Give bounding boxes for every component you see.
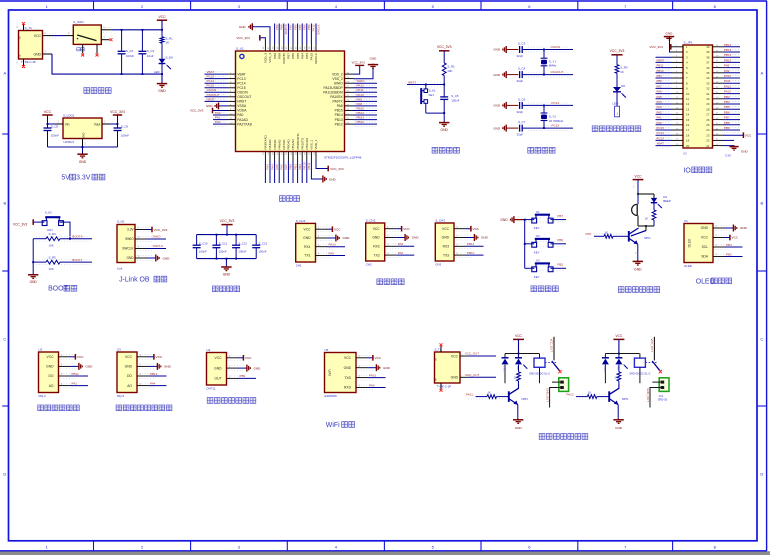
svg-text:GND_OUT: GND_OUT bbox=[646, 388, 650, 402]
GND power port at U3 MQ-5 pin 2 bbox=[149, 363, 172, 370]
LED D6 run indicator bbox=[613, 84, 626, 106]
svg-text:VBAT: VBAT bbox=[657, 142, 665, 146]
svg-text:AO: AO bbox=[49, 384, 54, 388]
GND power port at U1 VSSA pin bbox=[206, 102, 228, 109]
capacitor S_C3 10uF bbox=[138, 30, 154, 74]
svg-text:PB4: PB4 bbox=[300, 53, 304, 59]
svg-text:17: 17 bbox=[686, 128, 690, 132]
terminal pin 2 wire to GND_OUT bbox=[646, 388, 661, 408]
U5 ESP8266 pin stubs bbox=[356, 355, 374, 390]
svg-text:PA11USBDM: PA11USBDM bbox=[323, 91, 343, 95]
svg-text:VSSA: VSSA bbox=[237, 104, 247, 108]
svg-text:GND: GND bbox=[30, 280, 38, 284]
svg-text:GND: GND bbox=[329, 177, 337, 181]
crystal S_Y2 32.768KHz bbox=[541, 105, 564, 128]
svg-text:PC15: PC15 bbox=[552, 124, 560, 128]
svg-text:S_C7: S_C7 bbox=[518, 120, 526, 124]
svg-text:GND: GND bbox=[493, 104, 501, 108]
pin header S_JP1 IO expansion bbox=[683, 41, 713, 156]
svg-text:PA5AD: PA5AD bbox=[273, 139, 277, 150]
U1 right net label wires bbox=[354, 79, 378, 126]
flyback diode 1N4007 bbox=[602, 354, 609, 384]
net label PB4 wire at OLED pin 3 bbox=[725, 243, 743, 247]
svg-text:PA8: PA8 bbox=[337, 104, 343, 108]
section label OLED display bbox=[696, 278, 732, 285]
section label reset circuit bbox=[432, 147, 459, 153]
svg-text:VCC_OUT: VCC_OUT bbox=[650, 339, 654, 353]
svg-text:S_SW1: S_SW1 bbox=[73, 20, 84, 24]
section label relay control circuit bbox=[539, 434, 588, 440]
svg-text:GND: GND bbox=[223, 272, 231, 276]
svg-text:PA5: PA5 bbox=[586, 232, 592, 236]
svg-text:PA0: PA0 bbox=[237, 113, 243, 117]
net label PA5 with base resistor 1K bbox=[586, 230, 629, 238]
section label key circuit bbox=[531, 286, 558, 292]
VCC_3V3 power port of reset circuit bbox=[437, 45, 452, 63]
svg-text:S_R4: S_R4 bbox=[49, 232, 57, 236]
indicator LED of relay bbox=[615, 354, 627, 371]
svg-text:NRST: NRST bbox=[657, 58, 665, 62]
net label PB11 wire at CH3 pin 3 bbox=[466, 242, 484, 246]
svg-text:PA2: PA2 bbox=[657, 110, 663, 114]
svg-text:VCC: VCC bbox=[34, 34, 42, 38]
terminal pin 1 wire bbox=[652, 381, 660, 383]
svg-text:GND: GND bbox=[493, 73, 501, 77]
svg-text:PB6: PB6 bbox=[293, 24, 297, 30]
svg-text:PB1AD: PB1AD bbox=[291, 139, 295, 150]
svg-text:SRD-05VDC-SL-C: SRD-05VDC-SL-C bbox=[629, 371, 650, 375]
svg-text:PA10: PA10 bbox=[724, 74, 731, 78]
svg-text:NPN: NPN bbox=[522, 397, 528, 401]
svg-text:VCC: VCC bbox=[473, 227, 480, 231]
svg-text:34: 34 bbox=[706, 76, 710, 80]
section label BOOT circuit bbox=[48, 285, 77, 292]
svg-text:NPN: NPN bbox=[644, 236, 650, 240]
net label PA2 wire at CH2 pin 4 bbox=[396, 251, 414, 255]
capacitor S_C5 100nF bbox=[440, 85, 460, 114]
T1 VCC pin 1 stub bbox=[43, 32, 59, 38]
boot circuit ground rail bbox=[32, 239, 34, 275]
relay output screw terminal bbox=[659, 378, 669, 392]
svg-text:OSCOUT: OSCOUT bbox=[207, 93, 220, 97]
svg-text:PA8: PA8 bbox=[357, 102, 363, 106]
svg-text:PA0: PA0 bbox=[657, 121, 663, 125]
svg-text:VCC: VCC bbox=[451, 354, 459, 358]
T2 top pin stub with no-connect mark bbox=[440, 343, 443, 352]
capacitor S_C13 100nF bbox=[252, 235, 267, 259]
transistor Q2 NPN relay driver bbox=[609, 383, 628, 419]
svg-text:PA10: PA10 bbox=[369, 373, 376, 377]
right zone ticks and letters bbox=[757, 71, 767, 477]
svg-text:GND: GND bbox=[79, 160, 87, 164]
svg-text:VSS_3: VSS_3 bbox=[268, 53, 272, 63]
SW1 right pin 1 stub bbox=[101, 26, 112, 32]
svg-text:25: 25 bbox=[706, 123, 710, 127]
VCC power port at U4 DHT11 pin 1 bbox=[238, 355, 252, 361]
svg-text:PB2: PB2 bbox=[298, 164, 302, 170]
svg-text:D6: D6 bbox=[621, 84, 625, 88]
svg-text:GND: GND bbox=[515, 426, 523, 430]
svg-text:PB1: PB1 bbox=[293, 164, 297, 170]
svg-text:PB8: PB8 bbox=[280, 24, 284, 30]
svg-text:U5: U5 bbox=[325, 348, 329, 352]
wire VCC node to LDO Vin bbox=[48, 123, 56, 125]
svg-text:1K: 1K bbox=[615, 375, 618, 379]
svg-text:S_C8: S_C8 bbox=[51, 124, 59, 128]
svg-text:PB12: PB12 bbox=[357, 120, 365, 124]
svg-text:10: 10 bbox=[686, 92, 690, 96]
svg-text:PA10: PA10 bbox=[329, 243, 336, 247]
svg-text:VBAT: VBAT bbox=[207, 70, 215, 74]
svg-text:11: 11 bbox=[686, 97, 689, 101]
svg-text:1N4007: 1N4007 bbox=[603, 366, 605, 374]
capacitor S_C8 100nF bbox=[44, 123, 60, 147]
transistor Q1 NPN relay driver bbox=[509, 383, 528, 419]
relay coil box bbox=[634, 354, 645, 384]
T1 GND pin 2 stub bbox=[43, 51, 53, 54]
svg-text:PA6AD: PA6AD bbox=[277, 139, 281, 150]
svg-text:PB5: PB5 bbox=[557, 263, 563, 267]
relay switch SRD-05VDC-SL-C bbox=[629, 337, 662, 376]
svg-text:VCC: VCC bbox=[732, 236, 739, 240]
SW1 left pin 3 stub bbox=[66, 32, 73, 35]
GND power port at U5 ESP8266 pin 2 bbox=[368, 364, 391, 371]
VCC power port of relay driver bbox=[513, 334, 524, 354]
svg-text:VCC_3V3: VCC_3V3 bbox=[154, 228, 168, 232]
svg-text:OSCOUT: OSCOUT bbox=[551, 70, 564, 74]
relay coil top rail wire bbox=[605, 353, 639, 355]
svg-text:13: 13 bbox=[686, 107, 690, 111]
svg-text:VCC_3V3: VCC_3V3 bbox=[190, 109, 204, 113]
svg-text:8MHz: 8MHz bbox=[549, 64, 557, 68]
LED D4 BEEP bbox=[651, 194, 671, 208]
svg-text:32pF: 32pF bbox=[517, 54, 524, 58]
svg-text:DO: DO bbox=[127, 374, 132, 378]
switch label kaiguan bbox=[77, 48, 84, 51]
svg-text:LED: LED bbox=[617, 366, 619, 371]
svg-text:VDD_1: VDD_1 bbox=[314, 139, 318, 149]
svg-text:PB3: PB3 bbox=[307, 24, 311, 30]
svg-text:35: 35 bbox=[706, 71, 710, 75]
alarm emitter wire to ground bbox=[635, 244, 638, 261]
svg-text:PA10RX: PA10RX bbox=[330, 95, 343, 99]
GND power port at OLED pin 1 bbox=[725, 225, 748, 232]
terminal pin 1 wire bbox=[552, 381, 560, 383]
svg-text:S_C3: S_C3 bbox=[147, 49, 155, 53]
svg-text:BOOT0: BOOT0 bbox=[282, 53, 286, 64]
svg-text:NRST: NRST bbox=[237, 100, 246, 104]
svg-text:SWCLK: SWCLK bbox=[153, 244, 164, 248]
section label filter circuit bbox=[212, 286, 239, 292]
section label crystal circuit bbox=[528, 147, 555, 153]
svg-text:VCC: VCC bbox=[344, 356, 352, 360]
svg-text:S_U1: S_U1 bbox=[236, 47, 244, 51]
svg-text:PB14: PB14 bbox=[357, 111, 365, 115]
net label PB9 wire at U4 DHT11 pin 3 bbox=[238, 374, 256, 378]
svg-text:TX2: TX2 bbox=[374, 253, 380, 257]
svg-text:SWIO: SWIO bbox=[334, 81, 343, 85]
svg-text:IO: IO bbox=[684, 167, 692, 174]
svg-text:PA0: PA0 bbox=[215, 111, 221, 115]
svg-text:32pF: 32pF bbox=[517, 133, 524, 137]
svg-text:TYPE-C-2P: TYPE-C-2P bbox=[437, 385, 452, 389]
resistor S_R2 10K bbox=[442, 63, 455, 85]
VCC power port of relay driver bbox=[613, 334, 624, 354]
relay channel 1 group bbox=[466, 334, 569, 430]
svg-text:PA4: PA4 bbox=[270, 164, 274, 170]
GND power port of boot circuit bbox=[28, 274, 38, 284]
svg-text:PB15: PB15 bbox=[357, 106, 365, 110]
svg-text:12: 12 bbox=[686, 102, 690, 106]
svg-text:VCC_3V3: VCC_3V3 bbox=[352, 60, 366, 64]
net label PA9 wire at CH1 pin 4 bbox=[327, 251, 345, 255]
svg-text:GND: GND bbox=[163, 256, 171, 260]
svg-text:PC15: PC15 bbox=[207, 84, 215, 88]
svg-text:VCC_3V3: VCC_3V3 bbox=[330, 167, 344, 171]
svg-text:LED: LED bbox=[516, 366, 518, 371]
svg-text:PB7: PB7 bbox=[557, 214, 563, 218]
svg-text:CH1: CH1 bbox=[296, 263, 302, 267]
svg-text:PA1AD: PA1AD bbox=[237, 118, 248, 122]
svg-text:10K: 10K bbox=[447, 69, 452, 73]
svg-text:GND: GND bbox=[615, 426, 623, 430]
svg-text:100nF: 100nF bbox=[451, 99, 459, 103]
svg-text:U2: U2 bbox=[39, 347, 43, 351]
svg-text:PA9: PA9 bbox=[329, 251, 335, 255]
svg-text:GND: GND bbox=[214, 366, 222, 370]
svg-text:VCC_3V3: VCC_3V3 bbox=[437, 45, 452, 49]
svg-text:32: 32 bbox=[706, 87, 710, 91]
svg-text:U3: U3 bbox=[117, 347, 121, 351]
svg-text:PC13: PC13 bbox=[657, 136, 665, 140]
svg-text:PC14: PC14 bbox=[657, 131, 665, 135]
svg-text:PC14: PC14 bbox=[552, 101, 560, 105]
svg-text:S_C4: S_C4 bbox=[518, 67, 526, 71]
JP1 pin 22 wire bbox=[723, 139, 734, 141]
svg-text:NRST: NRST bbox=[207, 97, 215, 101]
GND power port of LDO bbox=[77, 153, 87, 164]
relay coil top rail wire bbox=[505, 353, 539, 355]
switch S_SW1 bbox=[73, 20, 101, 44]
svg-text:KEY: KEY bbox=[429, 93, 435, 97]
net label SWCLK wire bbox=[147, 244, 167, 248]
section label serial port circuit bbox=[377, 279, 404, 285]
U1 right pin names bbox=[323, 72, 343, 126]
svg-text:VBAT: VBAT bbox=[237, 72, 245, 76]
svg-text:3.3V: 3.3V bbox=[76, 175, 91, 182]
svg-text:VCC: VCC bbox=[442, 227, 450, 231]
svg-text:SRD-05: SRD-05 bbox=[658, 397, 668, 401]
VCC power port at U2 MQ-2 pin 1 bbox=[70, 354, 84, 360]
svg-text:VCC: VCC bbox=[304, 227, 312, 231]
svg-text:PB3: PB3 bbox=[305, 53, 309, 59]
svg-text:VCC: VCC bbox=[635, 174, 643, 178]
svg-text:PB4: PB4 bbox=[724, 100, 730, 104]
svg-text:PB15: PB15 bbox=[724, 58, 731, 62]
main MCU S_U1 STM32F103C8T6 LQFP48 bbox=[236, 47, 362, 160]
svg-text:VCC: VCC bbox=[701, 236, 709, 240]
alarm top rail wire bbox=[637, 193, 654, 195]
ground rail wire of power circuit bbox=[52, 54, 163, 83]
svg-text:S_D6: S_D6 bbox=[166, 55, 174, 59]
svg-text:S_C10: S_C10 bbox=[199, 242, 208, 246]
svg-text:DO: DO bbox=[49, 374, 54, 378]
application background strip at bottom bbox=[0, 551, 770, 555]
GND power port of power circuit bbox=[157, 83, 167, 94]
svg-text:37: 37 bbox=[706, 61, 710, 65]
svg-text:RX3: RX3 bbox=[443, 245, 450, 249]
svg-text:VDDA: VDDA bbox=[237, 109, 247, 113]
svg-text:VDD_3: VDD_3 bbox=[264, 53, 268, 63]
svg-text:SWCLK: SWCLK bbox=[122, 247, 134, 251]
svg-text:MQ-2: MQ-2 bbox=[39, 394, 47, 398]
VCC_3V3 power port of boot circuit bbox=[13, 219, 44, 226]
svg-text:PB5: PB5 bbox=[724, 105, 730, 109]
relay LED series resistor 1K bbox=[615, 365, 621, 384]
svg-text:23: 23 bbox=[706, 133, 710, 137]
svg-text:100nF: 100nF bbox=[126, 54, 134, 58]
svg-text:GND: GND bbox=[343, 236, 351, 240]
svg-text:PA3: PA3 bbox=[398, 242, 404, 246]
svg-text:PC15: PC15 bbox=[657, 126, 665, 130]
svg-text:VSS_1: VSS_1 bbox=[310, 140, 314, 150]
svg-text:32pF: 32pF bbox=[517, 79, 524, 83]
svg-text:31: 31 bbox=[706, 92, 710, 96]
wire LDO output to VCC_3V3 node bbox=[110, 123, 119, 125]
svg-text:PA9: PA9 bbox=[357, 97, 363, 101]
svg-text:PB3: PB3 bbox=[726, 252, 732, 256]
svg-text:PA15: PA15 bbox=[312, 24, 316, 31]
svg-text:PA12: PA12 bbox=[724, 84, 731, 88]
svg-text:PB10: PB10 bbox=[303, 162, 307, 169]
svg-text:PB9: PB9 bbox=[275, 24, 279, 30]
LDO GND pin 2 stub bbox=[83, 139, 87, 148]
pin header S_H1 J-Link bbox=[117, 220, 135, 271]
svg-text:GND: GND bbox=[370, 57, 378, 61]
svg-text:S_T1: S_T1 bbox=[25, 26, 33, 30]
GND power port of key circuit bbox=[500, 216, 524, 223]
svg-text:VCC: VCC bbox=[245, 356, 252, 360]
svg-text:S_H1: S_H1 bbox=[117, 220, 125, 224]
svg-text:29: 29 bbox=[706, 102, 710, 106]
svg-text:BOOT0: BOOT0 bbox=[72, 234, 83, 238]
svg-text:100nF: 100nF bbox=[219, 250, 227, 254]
section label combustible gas detection module bbox=[116, 405, 172, 411]
svg-text:PB10: PB10 bbox=[657, 69, 664, 73]
GND power port of alarm circuit bbox=[633, 260, 643, 271]
svg-text:PB12: PB12 bbox=[335, 122, 343, 126]
U1 top net label wires bbox=[275, 24, 321, 45]
svg-text:PB13: PB13 bbox=[335, 118, 343, 122]
svg-text:MQ-5: MQ-5 bbox=[117, 394, 125, 398]
svg-text:SWIO: SWIO bbox=[125, 237, 134, 241]
svg-text:TX3: TX3 bbox=[443, 253, 449, 257]
GND power port of relay driver bbox=[613, 419, 623, 430]
section label 5V to 3.3V circuit bbox=[61, 174, 105, 181]
svg-text:GND: GND bbox=[239, 25, 247, 29]
svg-text:C: C bbox=[3, 337, 6, 342]
net label PA10 wire at CH1 pin 3 bbox=[327, 243, 345, 247]
svg-text:LED: LED bbox=[613, 102, 620, 106]
svg-text:S_K2: S_K2 bbox=[45, 210, 52, 214]
module OLED bbox=[684, 219, 713, 268]
transistor Q NPN of alarm bbox=[629, 228, 651, 244]
capacitor S_C2 100nF bbox=[118, 30, 135, 74]
svg-text:3.3V: 3.3V bbox=[725, 154, 731, 158]
svg-text:GND: GND bbox=[493, 48, 501, 52]
svg-text:OSCIN: OSCIN bbox=[207, 88, 217, 92]
GND power port at H1 pin 4 bbox=[147, 255, 171, 262]
svg-text:SWCLK: SWCLK bbox=[316, 24, 320, 34]
svg-text:PA15: PA15 bbox=[724, 90, 731, 94]
module CH1 bbox=[296, 219, 316, 267]
svg-text:PB0: PB0 bbox=[289, 164, 293, 170]
svg-text:PC14: PC14 bbox=[207, 79, 215, 83]
CH2 pin stubs bbox=[385, 226, 403, 257]
section label J-Link OB interface bbox=[119, 276, 167, 283]
svg-text:PB4: PB4 bbox=[303, 24, 307, 30]
reset circuit ground wire bbox=[426, 112, 445, 122]
GND power port at JP1 pin 21 bbox=[723, 146, 749, 158]
svg-text:DHT11: DHT11 bbox=[207, 386, 216, 390]
svg-text:1K: 1K bbox=[645, 216, 648, 220]
svg-text:D: D bbox=[3, 472, 6, 477]
svg-text:PB9: PB9 bbox=[240, 374, 246, 378]
wire switch output to VCC rail node bbox=[112, 20, 163, 31]
capacitor S_C4 32pF with OSCOUT wire bbox=[493, 67, 573, 84]
svg-text:PA5: PA5 bbox=[657, 95, 663, 99]
T1 bottom pin stub with no-connect mark bbox=[17, 59, 26, 68]
svg-text:VCC_3V3: VCC_3V3 bbox=[110, 110, 125, 114]
U4 DHT11 pin stubs bbox=[227, 355, 245, 380]
svg-text:PA8: PA8 bbox=[724, 64, 730, 68]
svg-text:GND: GND bbox=[33, 52, 41, 56]
U1 bottom net label wires bbox=[265, 161, 311, 183]
svg-text:GND: GND bbox=[383, 366, 391, 370]
svg-text:30: 30 bbox=[706, 97, 710, 101]
svg-text:18: 18 bbox=[686, 133, 690, 137]
svg-text:GND: GND bbox=[127, 256, 135, 260]
svg-text:GND: GND bbox=[206, 104, 214, 108]
svg-text:VCC: VCC bbox=[373, 227, 381, 231]
VCC power port at OLED pin 2 bbox=[725, 235, 739, 241]
svg-text:15: 15 bbox=[686, 118, 690, 122]
section label sound light alarm circuit bbox=[618, 287, 659, 293]
section label WiFi module bbox=[326, 422, 355, 429]
svg-text:Vout: Vout bbox=[94, 123, 101, 127]
svg-text:VCC_3V3: VCC_3V3 bbox=[237, 36, 251, 40]
svg-text:PA12: PA12 bbox=[357, 84, 364, 88]
svg-text:VSS_2: VSS_2 bbox=[332, 77, 342, 81]
net label PA10 wire at U5 ESP8266 pin 3 bbox=[368, 373, 386, 377]
section label power circuit bbox=[84, 88, 111, 94]
svg-text:10K: 10K bbox=[49, 243, 54, 247]
svg-text:VCC: VCC bbox=[515, 334, 522, 338]
regulator S_LDO1 LD06V3 bbox=[63, 114, 102, 144]
svg-text:ESP8266: ESP8266 bbox=[325, 394, 338, 398]
filter bottom rail wire bbox=[197, 258, 257, 267]
CH3 pin stubs bbox=[454, 226, 472, 257]
resistor S_R3 1K bbox=[615, 65, 628, 87]
VCC_3V3 power port at U1 VDD_1 pin bbox=[316, 161, 344, 171]
VCC power port at CH2 pin 1 bbox=[396, 226, 410, 232]
svg-text:S_C6: S_C6 bbox=[518, 97, 526, 101]
GND power port at U1 VSS_1 pin bbox=[311, 161, 336, 183]
svg-text:KEY: KEY bbox=[534, 226, 540, 230]
svg-text:GND: GND bbox=[86, 365, 94, 369]
svg-text:GND: GND bbox=[254, 366, 262, 370]
VCC power port at JP1 pin 23 bbox=[723, 132, 752, 138]
